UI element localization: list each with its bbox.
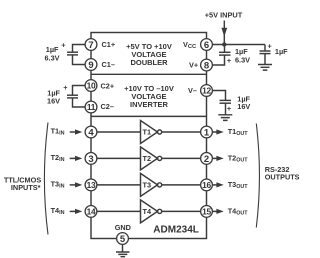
- svg-text:2: 2: [204, 154, 209, 165]
- brace RS-232 outputs: [256, 124, 259, 228]
- svg-text:T2OUT: T2OUT: [228, 154, 249, 164]
- svg-text:INPUTS*: INPUTS*: [11, 183, 41, 192]
- value 1uF 16V at C2: [47, 88, 61, 105]
- svg-text:16: 16: [202, 180, 211, 190]
- svg-text:T4: T4: [143, 207, 152, 216]
- wire +5V input vertical: [223, 21, 225, 45]
- output arrow T2OUT: [213, 156, 224, 161]
- svg-text:T3: T3: [143, 181, 152, 190]
- svg-text:T4OUT: T4OUT: [228, 207, 249, 217]
- capacitor C2 1uF 16V wiring: [73, 86, 86, 108]
- svg-text:16V: 16V: [47, 96, 60, 105]
- wire GND pin stub: [122, 244, 124, 252]
- pin 3: [85, 153, 97, 165]
- wire T1 input row: [91, 131, 141, 133]
- pin 13: [85, 179, 97, 191]
- pin 11: [85, 101, 97, 113]
- svg-text:12: 12: [202, 86, 211, 96]
- svg-text:3: 3: [88, 154, 93, 165]
- voltage inverter block divider: [91, 115, 207, 117]
- input arrow T3IN: [70, 182, 83, 187]
- svg-text:+5V INPUT: +5V INPUT: [205, 11, 243, 20]
- svg-text:C1+: C1+: [102, 40, 116, 49]
- input arrow T4IN: [70, 209, 83, 214]
- svg-text:+: +: [227, 56, 231, 65]
- pin 8: [201, 59, 213, 71]
- svg-text:V+: V+: [189, 61, 198, 70]
- svg-text:6: 6: [204, 40, 209, 51]
- driver T3: [141, 173, 158, 196]
- IC body ADM234L: [91, 33, 207, 239]
- svg-text:OUTPUTS: OUTPUTS: [265, 173, 300, 182]
- value 1uF 16V at C4: [237, 94, 250, 111]
- pin 14: [85, 206, 97, 218]
- pin 9: [85, 59, 97, 71]
- driver T1: [141, 121, 158, 144]
- wire Vcc rail: [207, 44, 266, 46]
- ground symbol at C4: [218, 115, 232, 121]
- svg-text:1µF: 1µF: [275, 47, 288, 56]
- svg-text:+: +: [63, 83, 67, 92]
- value 1uF 6.3V at C3: [235, 47, 250, 64]
- svg-text:1: 1: [204, 127, 210, 138]
- svg-text:8: 8: [204, 60, 209, 71]
- +5V input arrowhead: [221, 28, 227, 37]
- junction node Vcc: [222, 42, 226, 46]
- svg-text:7: 7: [88, 40, 93, 51]
- svg-text:15: 15: [202, 207, 211, 217]
- driver T2: [141, 147, 158, 170]
- brace TTL/CMOS inputs: [44, 123, 48, 235]
- svg-text:T4IN: T4IN: [51, 206, 65, 216]
- pin 2: [201, 153, 213, 165]
- svg-text:ADM234L: ADM234L: [153, 225, 199, 236]
- svg-text:T2: T2: [143, 154, 152, 163]
- ground symbol at pin 5: [116, 252, 130, 257]
- svg-text:10: 10: [87, 81, 96, 91]
- wire T3 input row: [91, 184, 141, 186]
- text voltage doubler: [126, 42, 172, 67]
- output arrow T1OUT: [213, 129, 224, 134]
- input arrow T1IN: [70, 129, 83, 134]
- svg-text:11: 11: [87, 102, 96, 112]
- svg-text:T3OUT: T3OUT: [228, 180, 249, 190]
- capacitor C1 1uF 6.3V wiring: [73, 45, 86, 65]
- capacitor C3 V+ 1uF 6.3V: [207, 45, 225, 66]
- svg-text:1µF: 1µF: [46, 45, 59, 54]
- wire T2 input row: [91, 157, 141, 159]
- voltage doubler block divider: [91, 73, 207, 75]
- svg-text:VCC: VCC: [183, 40, 197, 50]
- pin 16: [201, 179, 213, 191]
- svg-text:T2IN: T2IN: [51, 153, 65, 163]
- svg-text:C1–: C1–: [102, 60, 115, 69]
- output arrow T4OUT: [213, 209, 224, 214]
- pin 10: [85, 80, 97, 92]
- value 1uF 6.3V at C1: [44, 45, 59, 63]
- pin 4: [85, 126, 97, 138]
- svg-text:14: 14: [87, 207, 96, 217]
- svg-text:C2+: C2+: [101, 82, 115, 91]
- label TTL/CMOS INPUTS*: [4, 176, 41, 192]
- pin 7: [85, 39, 97, 51]
- svg-text:INVERTER: INVERTER: [130, 100, 169, 109]
- output arrow T3OUT: [213, 182, 224, 187]
- svg-text:+: +: [227, 104, 231, 113]
- svg-text:6.3V: 6.3V: [235, 55, 250, 64]
- wire T3 output row: [162, 184, 207, 186]
- svg-text:+: +: [61, 40, 65, 49]
- svg-text:16V: 16V: [237, 102, 250, 111]
- svg-text:C2–: C2–: [101, 102, 114, 111]
- pin 12: [201, 85, 213, 97]
- svg-text:T1IN: T1IN: [51, 127, 65, 137]
- wire T2 output row: [162, 157, 207, 159]
- input arrow T2IN: [70, 156, 83, 161]
- text voltage inverter: [124, 84, 174, 109]
- wire T1 output row: [162, 131, 207, 133]
- svg-text:V–: V–: [188, 86, 197, 95]
- svg-text:T1: T1: [143, 128, 152, 137]
- svg-text:T3IN: T3IN: [51, 180, 65, 190]
- svg-text:13: 13: [87, 180, 96, 190]
- svg-text:5: 5: [120, 234, 126, 245]
- svg-text:T1OUT: T1OUT: [228, 127, 249, 137]
- svg-text:4: 4: [88, 127, 94, 138]
- label RS-232 OUTPUTS: [265, 165, 300, 182]
- wire T4 output row: [162, 210, 207, 212]
- pin 15: [201, 206, 213, 218]
- ground symbol at C5: [258, 65, 272, 71]
- driver T4: [141, 200, 158, 223]
- svg-text:DOUBLER: DOUBLER: [130, 58, 168, 67]
- pin 1: [201, 126, 213, 138]
- svg-text:+: +: [267, 42, 271, 51]
- capacitor C4 V- 1uF 16V: [207, 91, 226, 115]
- pin 6: [201, 39, 213, 51]
- pin 5 (GND): [117, 233, 129, 245]
- svg-text:GND: GND: [115, 223, 131, 232]
- svg-text:6.3V: 6.3V: [44, 54, 59, 63]
- capacitor C5 Vcc bypass 1uF: [264, 45, 266, 65]
- wire T4 input row: [91, 210, 141, 212]
- svg-text:9: 9: [88, 60, 93, 71]
